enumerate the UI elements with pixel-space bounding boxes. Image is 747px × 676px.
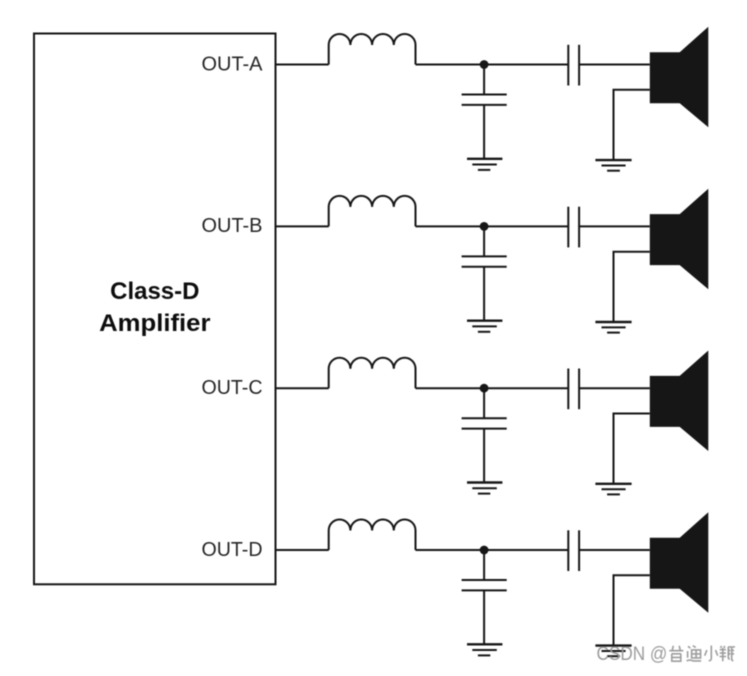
junction node C: [480, 384, 489, 393]
ground (speaker SPKC): [595, 484, 631, 495]
speaker SPKD: [650, 512, 709, 613]
inductor LD: [329, 519, 416, 550]
wire series capacitor CD2 to speaker SPKD: [579, 549, 650, 551]
inductor LA: [329, 34, 416, 65]
junction node B: [480, 222, 489, 231]
wire OUT-C pin to inductor LC: [276, 387, 329, 389]
wire junction node D to shunt capacitor CD1: [483, 550, 485, 580]
wire shunt capacitor CB1 to ground: [483, 267, 485, 321]
speaker SPKA: [650, 27, 709, 128]
wire speaker SPKC return to ground: [614, 414, 650, 484]
svg-text:OUT-B: OUT-B: [202, 215, 263, 237]
svg-text:Amplifier: Amplifier: [99, 310, 210, 337]
wire shunt capacitor CA1 to ground: [483, 105, 485, 159]
speaker SPKC: [650, 351, 709, 452]
wire junction node C to series capacitor CC2: [484, 387, 568, 389]
wire inductor LC to junction node C: [416, 387, 485, 389]
svg-text:Class-D: Class-D: [110, 278, 199, 305]
svg-text:OUT-D: OUT-D: [202, 539, 263, 561]
wire junction node A to series capacitor CA2: [484, 64, 568, 66]
junction node D: [480, 546, 489, 555]
junction node A: [480, 60, 489, 69]
op-amp / amplifier block U1 (Class-D Amplifier): [34, 34, 276, 585]
wire OUT-D pin to inductor LD: [276, 549, 329, 551]
wire junction node B to shunt capacitor CB1: [483, 226, 485, 256]
wire shunt capacitor CC1 to ground: [483, 429, 485, 483]
wire inductor LB to junction node B: [416, 225, 485, 227]
inductor LB: [329, 196, 416, 227]
series capacitor CB2 (DC block): [568, 207, 579, 248]
ground (speaker SPKB): [595, 322, 631, 333]
ground (shunt capacitor CC1): [467, 483, 502, 494]
wire shunt capacitor CD1 to ground: [483, 590, 485, 644]
wire junction node D to series capacitor CD2: [484, 549, 568, 551]
watermark CJK glyphs (hand-drawn): [669, 646, 735, 662]
svg-text:CSDN @: CSDN @: [597, 643, 668, 665]
wire series capacitor CC2 to speaker SPKC: [579, 387, 650, 389]
wire inductor LA to junction node A: [416, 64, 485, 66]
svg-text:OUT-C: OUT-C: [202, 377, 263, 399]
wire OUT-B pin to inductor LB: [276, 225, 329, 227]
ground (shunt capacitor CA1): [467, 159, 502, 170]
ground (speaker SPKA): [595, 160, 631, 171]
label Class-D Amplifier: [99, 278, 210, 337]
wire series capacitor CA2 to speaker SPKA: [579, 64, 650, 66]
wire junction node B to series capacitor CB2: [484, 225, 568, 227]
wire speaker SPKD return to ground: [614, 575, 650, 645]
shunt capacitor CD1: [462, 580, 507, 590]
shunt capacitor CA1: [462, 95, 507, 105]
ground (shunt capacitor CB1): [467, 321, 502, 332]
inductor LC: [329, 358, 416, 389]
series capacitor CA2 (DC block): [568, 45, 579, 86]
ground (shunt capacitor CD1): [467, 644, 502, 655]
wire junction node A to shunt capacitor CA1: [483, 65, 485, 95]
shunt capacitor CC1: [462, 418, 507, 428]
wire inductor LD to junction node D: [416, 549, 485, 551]
speaker SPKB: [650, 189, 709, 290]
series capacitor CD2 (DC block): [568, 530, 579, 571]
wire junction node C to shunt capacitor CC1: [483, 388, 485, 418]
wire OUT-A pin to inductor LA: [276, 64, 329, 66]
shunt capacitor CB1: [462, 256, 507, 266]
series capacitor CC2 (DC block): [568, 369, 579, 410]
wire speaker SPKB return to ground: [614, 252, 650, 322]
wire speaker SPKA return to ground: [614, 90, 650, 160]
svg-text:OUT-A: OUT-A: [202, 53, 264, 75]
ground (speaker SPKD): [595, 646, 631, 657]
wire series capacitor CB2 to speaker SPKB: [579, 225, 650, 227]
